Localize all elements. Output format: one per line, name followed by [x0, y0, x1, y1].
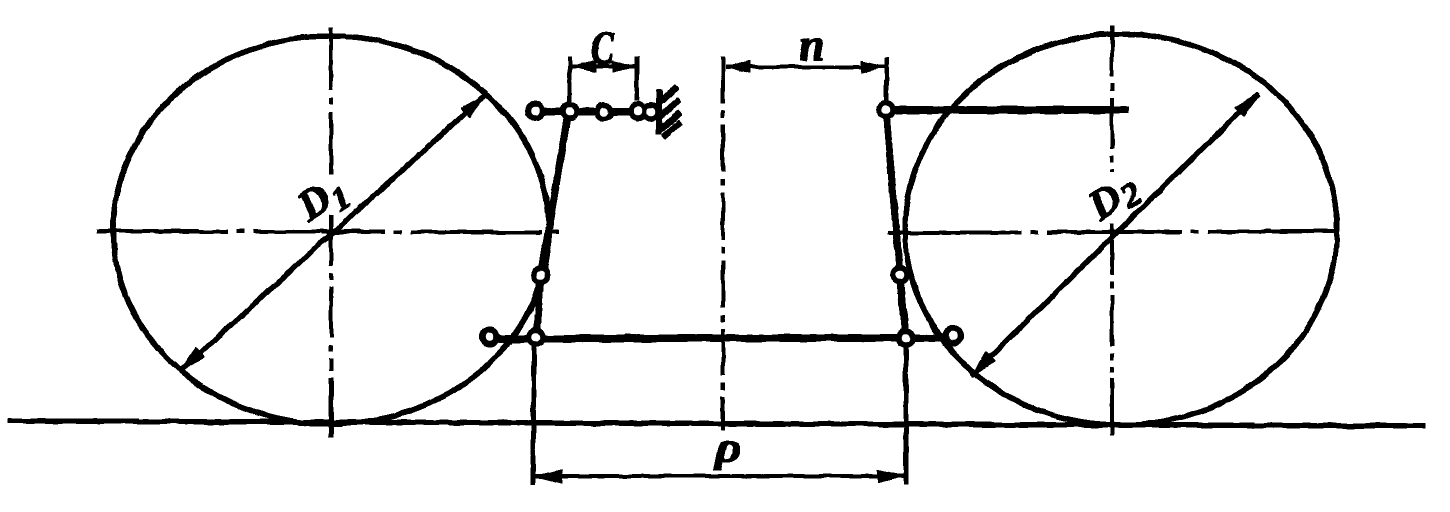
centerline vertical wheel D2	[1111, 26, 1114, 172]
centerline vertical middle	[722, 57, 725, 430]
joint right top	[880, 104, 893, 117]
crank pin left	[483, 330, 497, 344]
dimension P extension right	[904, 346, 908, 484]
crank pin right	[946, 329, 960, 343]
dimension P extension left	[533, 347, 534, 484]
joint circle top-left 4	[632, 105, 645, 118]
connecting rod left (upper)	[536, 113, 568, 338]
top link right	[890, 107, 1128, 114]
dimension C extension left	[569, 57, 570, 104]
svg-text:C: C	[591, 22, 615, 75]
joint circle top-left 1	[529, 105, 542, 118]
joint circle top-left 3	[598, 106, 611, 119]
joint right lower	[900, 332, 913, 345]
joint right upper	[894, 269, 907, 282]
top-left link bar	[537, 108, 654, 115]
ground line	[8, 421, 1425, 426]
svg-text:ρ: ρ	[713, 425, 742, 471]
dimension C line	[572, 61, 636, 72]
centerline vertical wheel D1	[330, 28, 333, 178]
dimension n extension right	[886, 58, 887, 102]
coupling rod	[494, 338, 947, 340]
support wall	[658, 87, 681, 137]
connecting rod right	[886, 112, 906, 338]
dimension P line	[536, 470, 904, 483]
dimension n line	[726, 62, 885, 73]
joint left lower	[530, 331, 543, 344]
wheel D1	[113, 36, 549, 424]
wheel D2	[905, 34, 1337, 425]
joint left upper	[535, 269, 548, 282]
dimension C extension right	[635, 57, 638, 100]
diameter arrow D2	[972, 94, 1258, 375]
diameter arrow D1	[181, 96, 484, 370]
svg-text:D1: D1	[289, 166, 358, 236]
svg-text:n: n	[799, 19, 825, 70]
centerline horizontal right	[888, 231, 1338, 233]
centerline horizontal left	[97, 231, 560, 233]
joint circle top-left 2	[564, 105, 577, 118]
support pin circle	[645, 106, 658, 119]
svg-text:D2: D2	[1080, 164, 1149, 233]
